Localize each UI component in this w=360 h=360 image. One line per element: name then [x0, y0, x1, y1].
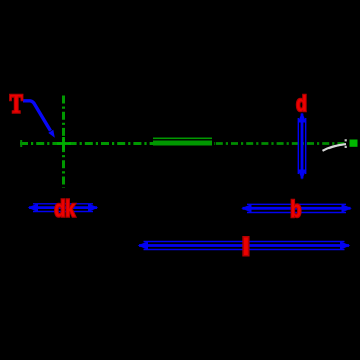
svg-text:dk: dk — [54, 196, 75, 222]
vertical centerline through head — [62, 96, 65, 189]
center cross highlight — [57, 137, 71, 150]
dimension dk (head diameter) — [29, 204, 97, 212]
torque arrow T (blue leader) — [23, 101, 51, 131]
label d — [296, 92, 307, 116]
svg-text:b: b — [290, 197, 301, 223]
label b — [290, 197, 301, 223]
horizontal centerline (axis) — [20, 142, 347, 145]
svg-text:d: d — [296, 92, 307, 116]
dimension b (thread length) — [243, 204, 351, 212]
label T — [10, 90, 23, 118]
label dk — [54, 196, 75, 222]
centerline left end tick — [20, 140, 22, 147]
tip end block (bright green) — [350, 140, 358, 147]
dimension d (shank diameter, vertical) — [298, 114, 305, 179]
svg-text:T: T — [10, 90, 23, 118]
dimension l (overall length) — [139, 242, 349, 250]
svg-text:l: l — [242, 235, 250, 261]
label l — [242, 235, 250, 261]
white swoosh (run-out highlight) — [323, 144, 347, 151]
thread section bar (solid green) — [153, 138, 212, 146]
